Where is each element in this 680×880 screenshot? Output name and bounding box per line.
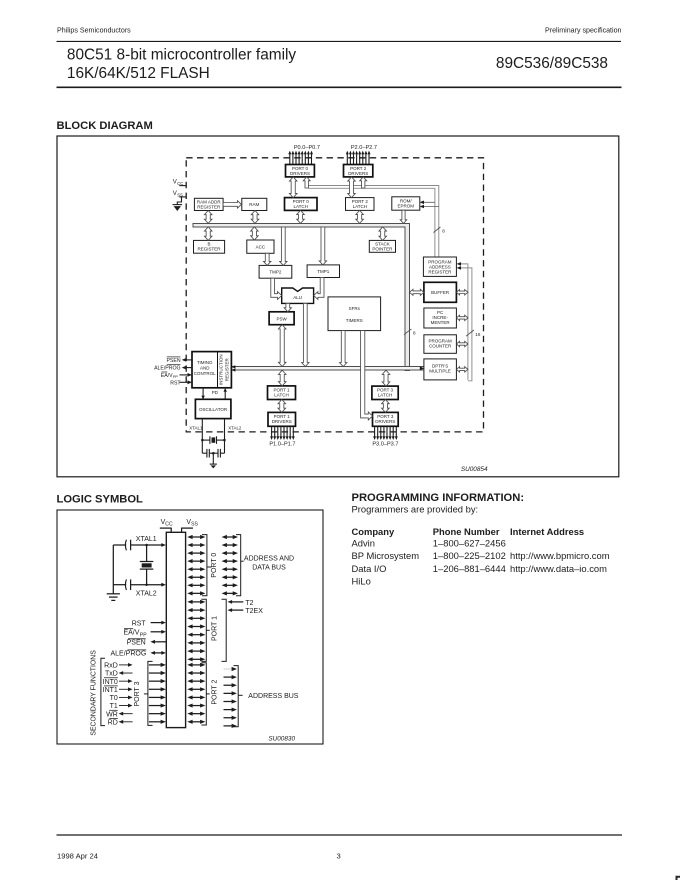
svg-text:CONTROL: CONTROL	[194, 371, 216, 376]
program address tube (PAR up to port drivers / ROM)	[305, 186, 445, 258]
arrow RAM addr reg to RAM	[223, 201, 241, 208]
svg-text:RST: RST	[132, 621, 147, 628]
svg-text:EPROM: EPROM	[398, 203, 415, 208]
arrow port2 drivers/latch	[348, 177, 356, 198]
node VSS	[173, 190, 186, 197]
wire port0 pin stubs	[290, 154, 312, 165]
arrow SFRs to control bus	[340, 331, 347, 367]
svg-text:Advin: Advin	[352, 538, 375, 549]
svg-text:TMP1: TMP1	[317, 269, 329, 274]
port 2 drivers U	[344, 165, 373, 177]
svg-text:INT0: INT0	[103, 679, 118, 686]
svg-text:TIMING: TIMING	[197, 360, 213, 365]
node WR	[106, 710, 132, 718]
wire to ground	[212, 453, 214, 464]
arrow bus/ACC	[251, 227, 259, 240]
program counter	[424, 335, 457, 354]
svg-text:RAM: RAM	[249, 202, 259, 207]
capacitor C2	[125, 579, 130, 590]
arrow PSW/control bus	[278, 325, 286, 367]
TMP2	[259, 265, 292, 278]
svg-text:BP Microsystem: BP Microsystem	[352, 550, 420, 561]
arrow port2 latch/bus	[356, 210, 364, 223]
DPTR's multiple	[424, 359, 457, 380]
svg-text:http://www.bpmicro.com: http://www.bpmicro.com	[510, 550, 610, 561]
svg-text:CC: CC	[165, 522, 173, 528]
arrow TMP1 to ALU	[314, 278, 324, 300]
svg-text:COUNTER: COUNTER	[429, 344, 452, 349]
svg-text:1–206–881–6444: 1–206–881–6444	[433, 563, 506, 574]
svg-text:89C536/89C538: 89C536/89C538	[496, 55, 608, 72]
svg-text:Data I/O: Data I/O	[352, 563, 387, 574]
internal data bus (L-shaped)	[193, 223, 410, 370]
arrow PC incrementer/PC tube	[456, 315, 468, 320]
svg-text:PSW: PSW	[276, 316, 287, 321]
svg-text:XTAL1: XTAL1	[189, 426, 203, 431]
node RD	[108, 718, 133, 726]
svg-text:OSCILLATOR: OSCILLATOR	[199, 407, 228, 412]
svg-text:SU00854: SU00854	[461, 466, 488, 473]
wire port3 pin arrows	[149, 663, 166, 724]
ROM/EPROM	[392, 197, 420, 210]
svg-text:PSEN: PSEN	[127, 640, 146, 647]
svg-text:LATCH: LATCH	[293, 204, 307, 209]
svg-text:SFRs: SFRs	[349, 306, 361, 311]
arrow control bus/port1 latch	[278, 370, 286, 386]
svg-text:SECONDARY FUNCTIONS: SECONDARY FUNCTIONS	[90, 650, 97, 736]
arrow port0 drivers/latch	[289, 177, 297, 198]
arrow buffer/PC tube	[456, 290, 468, 295]
svg-text:T2: T2	[245, 600, 253, 607]
node PSEN	[127, 639, 166, 647]
wire port1 pin arrows	[187, 600, 205, 662]
node INT0	[103, 678, 133, 686]
right-side PC tube	[457, 262, 481, 381]
wire XTAL2	[113, 583, 166, 587]
svg-text:P2.0–P2.7: P2.0–P2.7	[351, 145, 377, 151]
svg-text:P3.0–P3.7: P3.0–P3.7	[372, 441, 398, 447]
svg-text:REGISTER: REGISTER	[197, 247, 221, 252]
arrow bus to TMP2	[280, 227, 287, 266]
arrow port3 latch/drivers	[382, 400, 390, 413]
node VCC	[173, 179, 186, 186]
svg-text:PP: PP	[173, 375, 179, 379]
svg-text:EA/V: EA/V	[123, 630, 139, 637]
arrow bus to TMP1	[319, 227, 326, 265]
arrow DPTR/PC tube	[456, 367, 468, 372]
arrow port1 latch/drivers	[278, 400, 286, 413]
arrow port0 latch/bus	[297, 210, 305, 223]
svg-text:EA/V: EA/V	[161, 373, 173, 379]
svg-text:8: 8	[442, 228, 445, 233]
wire timing to oscillator	[202, 388, 204, 398]
svg-text:LATCH: LATCH	[378, 393, 392, 398]
ground (crystal)	[210, 464, 217, 468]
crystal Y1	[210, 436, 217, 444]
node T2EX	[228, 608, 264, 615]
bus width slash 8	[433, 227, 440, 233]
svg-text:RxD: RxD	[104, 663, 118, 670]
svg-text:PSEN: PSEN	[166, 358, 180, 364]
bracket T2/T2EX	[222, 599, 227, 661]
ground	[107, 594, 120, 601]
svg-text:XTAL2: XTAL2	[136, 590, 157, 597]
svg-text:POINTER: POINTER	[372, 247, 393, 252]
node T0	[110, 695, 133, 702]
svg-text:P1.0–P1.7: P1.0–P1.7	[269, 441, 295, 447]
bracket port1	[201, 599, 206, 661]
control bus from timing block to DPTR	[231, 365, 424, 371]
oscillator U	[195, 399, 231, 418]
svg-text:RD: RD	[108, 719, 118, 726]
dashed chip boundary	[186, 158, 483, 432]
svg-text:Preliminary specification: Preliminary specification	[545, 27, 622, 35]
svg-text:DRIVERS: DRIVERS	[348, 171, 368, 176]
capacitor C2	[218, 449, 220, 458]
svg-text:PORT 2: PORT 2	[212, 679, 219, 704]
bracket port3	[148, 661, 153, 725]
wire oscillator to instruction register	[224, 389, 226, 399]
arrow addr tube to port2 drivers	[360, 177, 367, 188]
svg-text:PP: PP	[140, 633, 147, 639]
node RxD	[104, 663, 132, 670]
ground	[173, 205, 183, 211]
port 0 drivers U	[286, 165, 315, 177]
wire port2 external address arrows	[224, 667, 237, 728]
svg-text:Internet Address: Internet Address	[510, 526, 584, 537]
bracket address/data bus	[236, 535, 241, 596]
PC incrementer	[424, 308, 457, 328]
node RST	[132, 621, 166, 628]
arrow ALU to PSW	[284, 303, 291, 311]
svg-text:P0.0–P0.7: P0.0–P0.7	[294, 145, 320, 151]
ACC	[247, 240, 274, 253]
svg-text:3: 3	[337, 852, 341, 861]
svg-text:MULTIPLE: MULTIPLE	[429, 369, 451, 374]
svg-text:WR: WR	[106, 711, 118, 718]
arrow ROM to bus	[400, 210, 407, 223]
node ALE/PROG	[111, 650, 166, 658]
arrow bus/buffer	[409, 289, 424, 295]
svg-text:80C51 8-bit microcontroller fa: 80C51 8-bit microcontroller family	[67, 46, 297, 63]
svg-text:XTAL2: XTAL2	[228, 426, 242, 431]
svg-text:ADDRESS BUS: ADDRESS BUS	[248, 693, 299, 700]
port 0 latch	[285, 198, 318, 211]
port 1 latch	[268, 386, 296, 400]
svg-text:PD: PD	[212, 390, 219, 395]
svg-text:Company: Company	[352, 526, 396, 537]
svg-text:DRIVERS: DRIVERS	[290, 171, 310, 176]
svg-text:DATA BUS: DATA BUS	[252, 565, 286, 572]
node INT1	[103, 686, 133, 694]
wire capacitor row	[202, 452, 224, 454]
svg-text:INSTRUCTION: INSTRUCTION	[219, 354, 224, 385]
svg-text:Philips Semiconductors: Philips Semiconductors	[57, 27, 131, 35]
svg-text:8: 8	[413, 330, 416, 335]
arrow TMP2 to ALU	[271, 278, 282, 299]
bracket address bus	[234, 666, 239, 727]
port 3 latch	[372, 386, 398, 399]
node EA/VPP	[123, 629, 165, 639]
svg-text:LATCH: LATCH	[274, 393, 288, 398]
node VSS	[181, 519, 198, 532]
bracket secondary functions	[101, 658, 105, 725]
program address register	[423, 257, 456, 276]
arrow ALU to control bus	[302, 303, 309, 366]
TMP1	[307, 265, 339, 278]
stack pointer	[369, 240, 395, 252]
wire: arrows into ROM/EPROM	[421, 201, 435, 203]
wire oscillator to crystal (XTAL2 leg)	[224, 419, 226, 454]
svg-text:SS: SS	[191, 522, 198, 528]
B register	[194, 240, 225, 253]
svg-text:1–800–627–2456: 1–800–627–2456	[433, 538, 506, 549]
svg-text:ALE/PROG: ALE/PROG	[111, 651, 147, 658]
bracket port0	[202, 535, 207, 596]
svg-text:T1: T1	[110, 703, 118, 710]
svg-text:REGISTER: REGISTER	[197, 204, 221, 209]
port 2 latch	[346, 198, 375, 211]
svg-text:INT1: INT1	[103, 687, 118, 694]
wire port1 pin stubs	[272, 426, 294, 437]
wire port2 pin stubs	[347, 154, 369, 165]
wire left leg	[112, 545, 114, 594]
node T1	[110, 703, 133, 710]
node EA/VPP	[161, 372, 192, 379]
arrow program counter/PC tube	[456, 341, 468, 346]
wire XTAL1	[113, 543, 166, 547]
svg-text:Phone Number: Phone Number	[433, 526, 500, 537]
svg-text:ADDRESS AND: ADDRESS AND	[244, 555, 294, 562]
svg-text:PORT 0: PORT 0	[211, 553, 218, 578]
RAM	[242, 198, 267, 210]
wire port3 pin stubs	[375, 426, 397, 437]
svg-text:PORT 1: PORT 1	[212, 616, 219, 641]
node RST	[170, 380, 192, 386]
node VCC	[160, 519, 173, 532]
crystal Y1	[140, 545, 154, 585]
SFRs TIMERS	[328, 297, 381, 331]
bus width slash 16	[466, 330, 474, 336]
node PSEN	[166, 357, 192, 364]
svg-text:BUFFER: BUFFER	[431, 290, 450, 295]
bus width slash 8 on main bus	[404, 329, 411, 335]
svg-text:1–800–225–2102: 1–800–225–2102	[433, 550, 506, 561]
svg-text:REGISTER: REGISTER	[224, 357, 229, 381]
node ALE/PROG	[154, 365, 192, 372]
svg-text:PORT 3: PORT 3	[134, 681, 141, 706]
svg-text:16: 16	[475, 332, 481, 337]
wire crystal branch	[201, 439, 225, 441]
svg-text:PROGRAMMING INFORMATION:: PROGRAMMING INFORMATION:	[352, 492, 525, 504]
buffer	[424, 282, 457, 302]
svg-text:ACC: ACC	[256, 244, 266, 249]
arrow addr tube to port0 drivers	[303, 177, 310, 188]
svg-text:TMP2: TMP2	[269, 270, 281, 275]
arrow bus/stack pointer	[379, 227, 387, 241]
port 3 drivers U	[373, 412, 399, 426]
svg-text:AND: AND	[200, 366, 210, 371]
wire port0 external bus arrows	[222, 535, 238, 596]
svg-text:LOGIC SYMBOL: LOGIC SYMBOL	[57, 493, 144, 505]
timing and control / instruction register U	[192, 352, 231, 388]
node TxD	[105, 671, 133, 678]
arrow RAM/bus	[251, 211, 259, 224]
wire port0 pin arrows	[187, 535, 205, 596]
PSW	[269, 312, 294, 325]
arrow control bus/port3 latch	[382, 370, 390, 386]
svg-text:DRIVERS: DRIVERS	[272, 419, 292, 424]
node T2	[228, 600, 254, 607]
wire port2 pin arrows	[187, 663, 205, 724]
RAM address register	[194, 198, 223, 210]
svg-text:TIMERS: TIMERS	[346, 318, 363, 323]
svg-text:BLOCK DIAGRAM: BLOCK DIAGRAM	[57, 120, 153, 132]
svg-text:ALU: ALU	[293, 295, 302, 300]
IC body 89C536	[166, 532, 185, 727]
capacitor C1	[207, 449, 209, 458]
svg-text:RST: RST	[170, 380, 181, 386]
svg-text:LATCH: LATCH	[353, 204, 367, 209]
svg-text:SU00830: SU00830	[268, 736, 295, 743]
svg-text:ALE/PROG: ALE/PROG	[154, 366, 181, 372]
ALU U	[282, 288, 314, 303]
svg-text:REGISTER: REGISTER	[428, 269, 452, 274]
capacitor C1	[125, 540, 130, 551]
wire VSS to ground	[177, 197, 181, 204]
wire oscillator to crystal (XTAL1 leg)	[201, 419, 203, 454]
svg-text:Programmers are provided by:: Programmers are provided by:	[352, 504, 479, 515]
arrow SFRs to port3 drivers	[361, 331, 373, 420]
port 1 drivers U	[268, 412, 296, 426]
arrow RAM addr reg/bus	[204, 211, 212, 224]
svg-text:http://www.data–io.com: http://www.data–io.com	[510, 563, 607, 574]
svg-text:HiLo: HiLo	[352, 575, 371, 586]
bracket port2	[201, 663, 206, 725]
svg-text:16K/64K/512 FLASH: 16K/64K/512 FLASH	[67, 65, 210, 82]
svg-text:DRIVERS: DRIVERS	[375, 419, 395, 424]
arrow bus/B register	[204, 227, 212, 241]
svg-text:XTAL1: XTAL1	[136, 536, 157, 543]
svg-text:T0: T0	[110, 695, 118, 702]
svg-text:T2EX: T2EX	[245, 608, 263, 615]
svg-text:1998 Apr 24: 1998 Apr 24	[57, 852, 98, 861]
svg-text:MENTER: MENTER	[431, 320, 451, 325]
svg-text:TxD: TxD	[105, 671, 118, 678]
arrow ACC to TMP2	[264, 253, 271, 265]
